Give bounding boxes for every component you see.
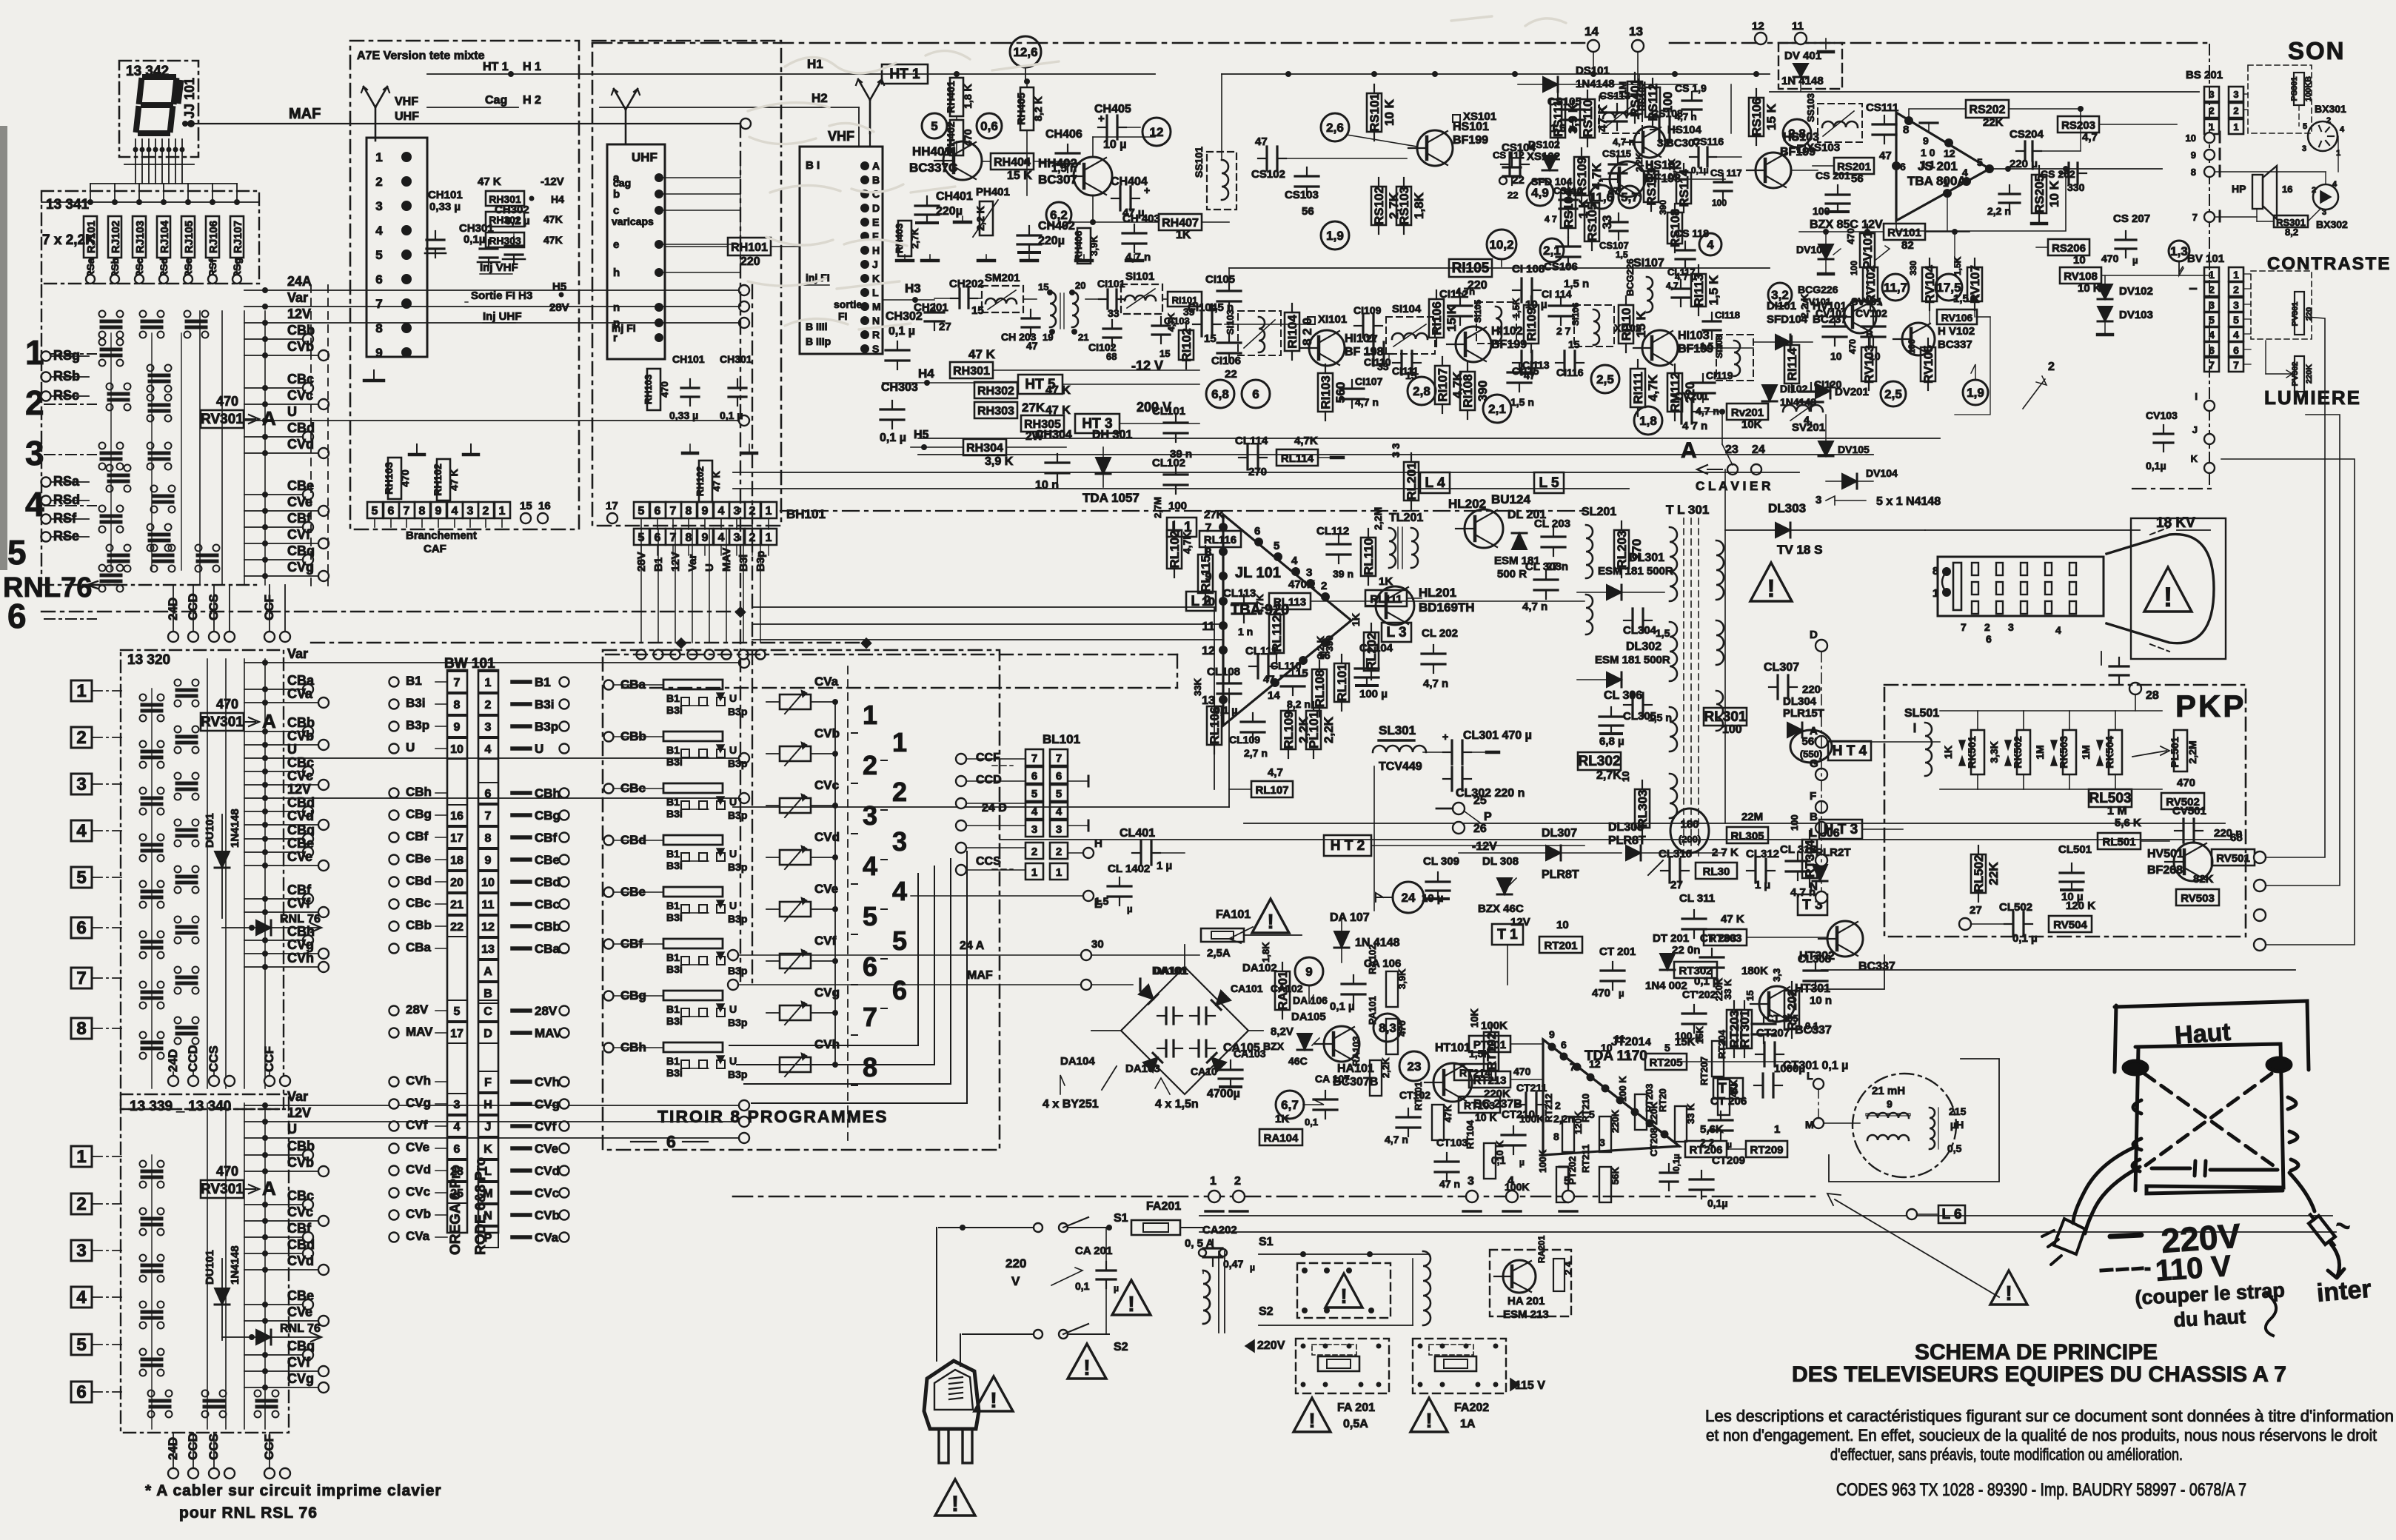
svg-text:CVh: CVh [406, 1074, 431, 1088]
svg-text:47K: 47K [543, 213, 563, 225]
svg-text:!: ! [1128, 1293, 1135, 1316]
svg-text:RSg: RSg [53, 348, 80, 363]
svg-text:CVe: CVe [287, 1305, 312, 1319]
capacitor CH401 [926, 196, 928, 206]
coil SS101 box [1207, 152, 1237, 210]
ground DV401 [1825, 38, 1827, 49]
svg-text:1: 1 [766, 532, 772, 544]
connector BH101 left [367, 502, 383, 518]
svg-text:RT201: RT201 [1544, 940, 1577, 952]
svg-text:CH301: CH301 [720, 353, 752, 365]
svg-text:B3i: B3i [666, 1015, 683, 1027]
svg-text:UHF: UHF [632, 150, 657, 164]
tuner UHF box [592, 41, 781, 526]
resistor RJ107 [230, 216, 244, 258]
svg-text:CL102: CL102 [1152, 457, 1185, 469]
svg-text:7: 7 [2209, 359, 2215, 371]
svg-text:PV101: PV101 [1861, 231, 1875, 269]
svg-text:2,5: 2,5 [1884, 387, 1902, 401]
svg-text:+: + [1098, 113, 1105, 125]
svg-text:27: 27 [1366, 332, 1378, 344]
svg-text:CT103: CT103 [1436, 1136, 1468, 1148]
svg-text:9: 9 [1205, 571, 1212, 583]
svg-text:CBh: CBh [406, 785, 432, 799]
svg-text:46C: 46C [1288, 1055, 1308, 1067]
transistor BCG226 label [1768, 283, 1792, 307]
svg-text:10: 10 [1556, 919, 1569, 931]
oval 560 [1790, 730, 1832, 763]
svg-text:CI116: CI116 [1556, 366, 1584, 378]
svg-text:3: 3 [375, 199, 382, 213]
svg-text:2: 2 [485, 699, 492, 712]
svg-text:5: 5 [931, 119, 937, 133]
filter SI105 [1476, 302, 1516, 344]
svg-text:4: 4 [718, 505, 725, 518]
svg-text:S1: S1 [1259, 1236, 1274, 1248]
svg-text:5: 5 [2233, 314, 2239, 326]
svg-text:28V: 28V [535, 1004, 558, 1018]
svg-text:RNL 76: RNL 76 [280, 1322, 321, 1335]
svg-text:2: 2 [1984, 621, 1990, 633]
svg-text:CI105: CI105 [1205, 273, 1235, 286]
svg-text:RT213: RT213 [1473, 1074, 1506, 1087]
resistor RS203 [2058, 116, 2099, 133]
svg-text:6,8: 6,8 [1211, 387, 1229, 401]
svg-text:2: 2 [863, 750, 877, 780]
resistor RL109 [1281, 711, 1296, 749]
svg-text:100: 100 [1168, 500, 1187, 512]
svg-text:3: 3 [2008, 621, 2014, 633]
svg-text:Var: Var [287, 1089, 308, 1104]
svg-text:12: 12 [1944, 147, 1955, 159]
svg-text:68: 68 [2230, 831, 2243, 844]
svg-text:RJ105: RJ105 [183, 221, 195, 253]
svg-text:28V: 28V [406, 1002, 429, 1017]
vertical dashed bus lines [310, 285, 312, 586]
svg-text:DH 301: DH 301 [1092, 429, 1132, 441]
svg-text:15 K: 15 K [1764, 103, 1778, 130]
wires amp cluster [956, 141, 957, 155]
capacitor CL312 [1747, 870, 1756, 871]
svg-text:16: 16 [450, 810, 464, 823]
svg-text:11: 11 [1202, 620, 1215, 633]
resistor RH403 [898, 221, 911, 256]
svg-text:4,7K: 4,7K [1294, 435, 1318, 447]
svg-text:6: 6 [892, 975, 907, 1005]
hand cord to inter [2289, 1173, 2344, 1278]
BW101 right labels [512, 680, 530, 684]
svg-text:RT204: RT204 [1716, 1029, 1727, 1059]
filter SI104 [1386, 317, 1435, 354]
capacitor CH203 [1030, 309, 1031, 318]
svg-text:CT 206: CT 206 [1710, 1095, 1747, 1108]
svg-text:15: 15 [1744, 991, 1756, 1001]
svg-text:PS301: PS301 [2290, 76, 2299, 101]
svg-text:14: 14 [1268, 689, 1280, 702]
svg-text:RH303: RH303 [489, 235, 521, 247]
svg-text:CL 202: CL 202 [1422, 627, 1458, 640]
svg-text:DL305: DL305 [1608, 821, 1644, 834]
svg-text:24A: 24A [287, 274, 312, 289]
svg-text:1N4 002: 1N4 002 [1645, 980, 1687, 992]
svg-text:RH406: RH406 [1073, 231, 1084, 261]
svg-text:CBg: CBg [535, 808, 560, 823]
resistor RI107 [1435, 366, 1450, 404]
svg-text:B1: B1 [406, 674, 422, 688]
svg-text:PV301: PV301 [2291, 301, 2300, 326]
svg-text:RH103: RH103 [643, 375, 654, 404]
svg-text:RL501: RL501 [2102, 836, 2135, 848]
svg-text:470: 470 [1513, 1065, 1531, 1077]
svg-text:DV102: DV102 [2119, 285, 2153, 298]
svg-text:RL109: RL109 [1282, 711, 1296, 749]
svg-text:RH403: RH403 [894, 224, 905, 253]
transistor HS103 [1756, 153, 1791, 188]
svg-text:27: 27 [1670, 879, 1683, 891]
svg-text:RS111: RS111 [1551, 100, 1565, 137]
svg-text:2,7K: 2,7K [1596, 769, 1622, 782]
svg-text:CVg: CVg [535, 1097, 560, 1111]
svg-text:RV103: RV103 [1862, 345, 1876, 384]
svg-text:CL110: CL110 [1271, 660, 1301, 672]
svg-text:CVe: CVe [287, 495, 312, 509]
svg-text:30: 30 [1091, 938, 1104, 951]
CRT ground cap [2101, 652, 2102, 665]
svg-text:CVh: CVh [535, 1075, 560, 1089]
svg-text:SS103: SS103 [1805, 93, 1816, 122]
svg-text:N: N [872, 315, 880, 327]
svg-text:CVf: CVf [535, 1119, 557, 1134]
capacitor CH202 [951, 298, 960, 299]
svg-text:11: 11 [482, 899, 495, 911]
svg-text:RV301: RV301 [201, 714, 244, 730]
svg-text:4: 4 [1056, 806, 1063, 818]
svg-text:B3i: B3i [666, 1067, 683, 1079]
mains coil [1203, 1270, 1210, 1324]
resistor RS206 [2048, 239, 2089, 255]
svg-text:RL107: RL107 [1255, 784, 1288, 797]
capacitor CI119 [1702, 374, 1704, 383]
svg-text:9: 9 [1923, 135, 1929, 147]
svg-text:SCHEMA DE PRINCIPE: SCHEMA DE PRINCIPE [1915, 1340, 2158, 1365]
voltage 1,3b [2179, 261, 2183, 275]
svg-text:CH201: CH201 [914, 301, 948, 314]
svg-text:B3p: B3p [728, 1068, 747, 1080]
svg-text:CVc: CVc [287, 1205, 313, 1219]
svg-text:DU101: DU101 [204, 813, 216, 848]
capacitor CL102 [1175, 466, 1177, 475]
svg-text:BH101: BH101 [786, 507, 826, 521]
svg-text:2: 2 [483, 505, 489, 518]
svg-text:2,2K: 2,2K [1322, 716, 1336, 743]
svg-text:3: 3 [892, 826, 907, 857]
svg-text:5: 5 [454, 1005, 461, 1018]
svg-text:39 n: 39 n [1333, 568, 1353, 580]
svg-text:RH407: RH407 [1162, 217, 1199, 230]
svg-text:U: U [729, 744, 737, 756]
svg-text:RT205: RT205 [1649, 1057, 1682, 1069]
svg-text:CH101: CH101 [672, 353, 705, 365]
warning FA202 [1411, 1398, 1448, 1432]
svg-text:Sortie FI H3: Sortie FI H3 [471, 289, 532, 302]
svg-text:RSe: RSe [53, 529, 79, 543]
svg-text:220: 220 [1005, 1256, 1026, 1270]
voltage 12 [1142, 118, 1171, 146]
bottom dash fragment [2132, 488, 2217, 489]
amp output wires [1990, 168, 2162, 170]
svg-text:4,7 n: 4,7 n [1423, 677, 1448, 690]
capacitor CL203 [1553, 528, 1554, 537]
svg-text:CS116: CS116 [1693, 135, 1724, 147]
svg-text:33: 33 [1108, 307, 1120, 319]
ground bars amp [929, 255, 931, 261]
svg-text:CS204: CS204 [2010, 128, 2044, 141]
resistor RH302 tuner [486, 212, 524, 227]
svg-text:CT'202: CT'202 [1682, 988, 1716, 1000]
svg-text:BL101: BL101 [1043, 732, 1080, 746]
capacitor CS103 [1306, 167, 1308, 176]
svg-text:DU101: DU101 [204, 1250, 216, 1285]
IF row1 wires [1221, 74, 1222, 158]
hand cord to plug [2073, 1146, 2140, 1233]
svg-text:56: 56 [1302, 205, 1314, 218]
svg-text:0,5A: 0,5A [1343, 1418, 1368, 1430]
svg-text:CA102: CA102 [1271, 982, 1303, 994]
svg-text:2,5A: 2,5A [1207, 947, 1231, 960]
svg-text:PKP: PKP [2175, 689, 2246, 723]
filter SI101 [1121, 284, 1162, 314]
svg-text:13 320: 13 320 [127, 652, 170, 668]
svg-text:FI: FI [838, 310, 847, 322]
svg-text:DL 308: DL 308 [1482, 855, 1519, 868]
svg-text:2,7K: 2,7K [909, 228, 920, 249]
svg-text:470: 470 [1592, 987, 1610, 1000]
svg-text:RV504: RV504 [2053, 919, 2087, 931]
voltage 17,5 [1935, 274, 1962, 301]
svg-text:8: 8 [686, 505, 692, 518]
svg-text:Cag: Cag [485, 94, 507, 107]
svg-text:CS102: CS102 [1251, 168, 1285, 181]
svg-text:RH301: RH301 [953, 365, 990, 378]
svg-text:RV102: RV102 [1864, 265, 1878, 304]
resistor RI104 [1285, 312, 1299, 351]
ground stubs [416, 444, 418, 453]
svg-text:8: 8 [1205, 546, 1212, 559]
svg-text:CVc: CVc [287, 769, 313, 783]
svg-text:BCG226: BCG226 [1624, 258, 1636, 296]
svg-text:2,7M: 2,7M [1152, 497, 1163, 518]
svg-text:HL202: HL202 [1448, 497, 1486, 511]
resistor RI106 [1429, 299, 1444, 338]
svg-text:BX301: BX301 [2315, 103, 2346, 115]
diode DI102 [1762, 385, 1777, 401]
voltage 11,7 [1882, 274, 1909, 301]
capacitor CV201 [1673, 411, 1681, 412]
svg-text:TDA 1057: TDA 1057 [1082, 491, 1140, 505]
svg-text:4: 4 [2055, 624, 2061, 636]
switch S1 [1034, 1223, 1043, 1232]
svg-text:TL201: TL201 [1389, 512, 1423, 524]
node H [1083, 848, 1094, 858]
resistor RS202 [1966, 100, 2009, 118]
svg-text:4,7: 4,7 [2082, 131, 2098, 144]
svg-text:CL114: CL114 [1235, 435, 1268, 447]
wire MAF [187, 120, 195, 127]
svg-text:CS114: CS114 [1553, 185, 1583, 196]
CRT warning [2144, 567, 2192, 612]
svg-text:RA103: RA103 [1351, 1037, 1362, 1066]
svg-text:U: U [535, 742, 543, 756]
svg-text:B1: B1 [666, 796, 680, 808]
resistor RL116 [1199, 531, 1241, 547]
bottom solid buses [1199, 1215, 2332, 1216]
svg-text:B1: B1 [535, 675, 551, 689]
svg-text:C: C [483, 1005, 492, 1018]
svg-text:RA102: RA102 [1367, 945, 1378, 974]
svg-text:100: 100 [1712, 198, 1727, 208]
svg-text:ESM 213: ESM 213 [1503, 1308, 1549, 1321]
filter SI103 [1238, 311, 1281, 355]
svg-text:1A: 1A [1460, 1418, 1476, 1430]
svg-text:varicaps: varicaps [612, 215, 654, 227]
capacitor CI104 [1193, 324, 1202, 325]
svg-text:12: 12 [1752, 20, 1764, 33]
svg-text:1: 1 [76, 1147, 86, 1167]
svg-text:SI105: SI105 [1473, 299, 1483, 323]
svg-text:cag: cag [613, 177, 631, 189]
CRT frame [2131, 518, 2226, 659]
svg-text:CBf: CBf [535, 831, 558, 845]
svg-text:RH304: RH304 [966, 442, 1003, 455]
svg-text:1 0: 1 0 [1921, 147, 1935, 158]
svg-text:2: 2 [2048, 361, 2055, 373]
svg-text:25: 25 [1473, 794, 1487, 807]
connector BH101 row2 [634, 529, 649, 545]
warning FA201 [1294, 1398, 1331, 1432]
capacitor CL310 [1661, 870, 1670, 871]
svg-text:47 n: 47 n [1439, 1178, 1460, 1190]
boxed label HT2 [1324, 835, 1371, 856]
svg-text:4: 4 [76, 1288, 87, 1308]
svg-text:CVb: CVb [406, 1207, 431, 1221]
svg-text:10: 10 [1620, 771, 1631, 782]
svg-text:2: 2 [1555, 1099, 1561, 1111]
svg-text:12V: 12V [287, 307, 311, 321]
bridge rectifier DA101-DA104 [1121, 967, 1248, 1094]
svg-text:5: 5 [76, 868, 86, 888]
svg-text:RT103: RT103 [1464, 1099, 1495, 1111]
svg-text:RSd: RSd [53, 492, 80, 507]
svg-text:56K: 56K [1610, 1167, 1621, 1185]
svg-text:27K: 27K [1022, 401, 1045, 415]
svg-text:24 A: 24 A [960, 940, 985, 952]
svg-text:RV503: RV503 [2181, 892, 2215, 905]
svg-text:CT208 220K: CT208 220K [1648, 1102, 1659, 1156]
svg-text:3: 3 [2233, 89, 2238, 100]
svg-text:21: 21 [450, 899, 464, 911]
svg-text:4: 4 [2340, 125, 2345, 134]
svg-text:2: 2 [2326, 116, 2331, 125]
svg-text:h: h [613, 267, 620, 279]
svg-text:5: 5 [863, 901, 877, 931]
svg-text:BC337: BC337 [1938, 338, 1972, 351]
svg-text:CH404: CH404 [1111, 175, 1148, 188]
svg-text:27K: 27K [1204, 509, 1225, 521]
op-amp JS201 TBA800A [1896, 113, 1990, 221]
svg-text:UHF: UHF [395, 110, 419, 123]
svg-text:DT 201: DT 201 [1653, 932, 1689, 945]
svg-text:CVd: CVd [535, 1164, 560, 1178]
svg-text:3: 3 [76, 774, 86, 794]
svg-text:CH303: CH303 [881, 381, 918, 394]
svg-text:JJ 101: JJ 101 [182, 78, 197, 118]
svg-text:10 n: 10 n [1035, 479, 1059, 492]
resistor RS205 [2032, 175, 2047, 213]
svg-text:CT210: CT210 [1502, 1108, 1535, 1121]
svg-text:CVa: CVa [814, 674, 839, 689]
svg-text:RI106: RI106 [1430, 301, 1444, 335]
svg-text:RT206: RT206 [1689, 1144, 1722, 1156]
svg-text:DV104: DV104 [1866, 467, 1898, 479]
svg-text:15: 15 [520, 500, 532, 512]
svg-text:CS 118: CS 118 [1675, 227, 1709, 239]
diode DU101 on 13339 [221, 1259, 223, 1340]
svg-text:CONTRASTE: CONTRASTE [2267, 254, 2391, 274]
yoke circle [1853, 1074, 1956, 1177]
svg-text:5: 5 [76, 1335, 86, 1355]
svg-text:7: 7 [454, 677, 461, 689]
svg-text:B3p: B3p [728, 809, 747, 821]
svg-text:220µ: 220µ [1038, 235, 1065, 247]
svg-text:B IIIp: B IIIp [806, 335, 831, 347]
svg-text:ESM 181 500R: ESM 181 500R [1595, 654, 1670, 666]
svg-text:RV105: RV105 [1921, 345, 1935, 384]
svg-text:0,1 µ: 0,1 µ [2012, 932, 2038, 945]
svg-text:B3i: B3i [666, 756, 683, 768]
svg-text:!: ! [1083, 1356, 1091, 1380]
svg-text:CA10: CA10 [1191, 1065, 1217, 1077]
voltage 8,3 [1373, 1014, 1402, 1042]
svg-text:D: D [1810, 629, 1818, 641]
svg-text:47K: 47K [1442, 1105, 1453, 1122]
capacitor CS116 [1690, 156, 1699, 158]
resistor RI113 [1691, 274, 1706, 307]
resistor RS110 [1580, 99, 1595, 138]
svg-text:RS103: RS103 [1397, 187, 1411, 225]
svg-text:A: A [872, 160, 880, 172]
svg-text:10: 10 [450, 743, 464, 756]
label 17 [607, 513, 618, 523]
diode DV105 [1818, 441, 1833, 456]
svg-text:4,7K: 4,7K [1646, 374, 1660, 401]
IF supply bus [1222, 73, 1770, 75]
svg-text:DA101: DA101 [1154, 965, 1188, 977]
keypad 13320 wires [207, 659, 208, 1088]
svg-text:RS205: RS205 [2032, 175, 2047, 213]
svg-text:8: 8 [454, 699, 461, 712]
svg-text:H4: H4 [551, 193, 564, 205]
svg-text:A: A [1681, 438, 1697, 463]
svg-text:H T 2: H T 2 [1331, 838, 1365, 854]
left node letters [1816, 640, 1827, 652]
svg-text:3: 3 [734, 532, 740, 544]
svg-text:CL301 470 µ: CL301 470 µ [1463, 729, 1532, 742]
transistor HA101 [1324, 1026, 1359, 1062]
capacitor CL308 [1815, 962, 1816, 971]
svg-text:470: 470 [216, 394, 238, 409]
svg-text:100: 100 [1813, 205, 1830, 217]
svg-text:10,2: 10,2 [1489, 238, 1513, 252]
